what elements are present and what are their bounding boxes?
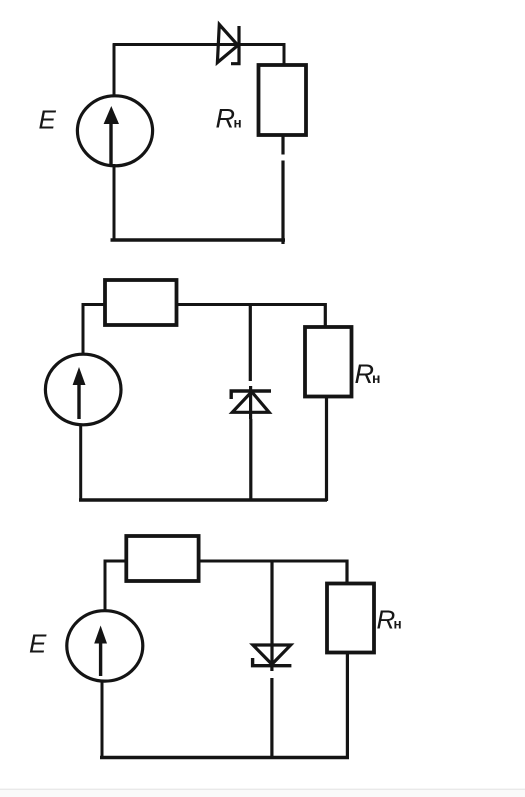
zener center line	[249, 386, 252, 419]
wire: right vertical stub under resistor	[281, 135, 284, 155]
wire: right down-turn into Rн	[324, 303, 327, 328]
wire: below Rн to bottom	[346, 653, 349, 759]
zener diode VD (triangle pointing down)	[253, 645, 291, 664]
wire: middle branch from top wire down to zener	[270, 561, 273, 666]
svg-text:R: R	[377, 605, 396, 635]
wire: top-left corner (source to series resistor)	[83, 305, 106, 356]
svg-text:E: E	[39, 105, 57, 135]
wire: below zener to bottom	[270, 678, 273, 758]
wire: bottom horizontal	[79, 498, 327, 501]
wire: left vertical below source	[113, 164, 116, 240]
voltage source E (circle)	[77, 96, 152, 166]
wire: left vertical from top corner to source top	[113, 43, 116, 97]
series resistor (box)	[105, 280, 177, 325]
wire: diode cathode to resistor top	[240, 45, 284, 67]
zener diode VD (cathode bar with hook)	[231, 391, 271, 399]
wire: bottom horizontal	[100, 756, 349, 759]
svg-text:E: E	[29, 629, 47, 659]
svg-text:н: н	[372, 370, 380, 386]
series resistor (box)	[126, 536, 198, 581]
voltage source E (circle)	[67, 611, 143, 681]
wire: bottom horizontal	[111, 238, 286, 241]
wire: below Rн to bottom	[325, 397, 328, 502]
wire: right down-turn into Rн	[345, 560, 348, 585]
wire: right vertical lower segment	[281, 161, 284, 245]
svg-text:R: R	[216, 104, 236, 134]
wire: top-left horizontal (E to diode anode)	[113, 43, 242, 46]
wire: left vertical below source	[101, 681, 104, 758]
zener anode stub	[270, 666, 273, 671]
faint page divider near bottom	[0, 789, 525, 790]
arrow of source	[77, 380, 80, 419]
diode VD cathode bar with hook	[231, 26, 239, 64]
arrow of source E	[109, 119, 112, 165]
zener diode VD (cathode bar with hook)	[253, 658, 292, 666]
wire: below zener to bottom	[249, 419, 252, 501]
load resistor Rн (box)	[259, 65, 307, 135]
wire: top horizontal (resistor to right branch)	[177, 303, 326, 306]
load resistor Rн (box)	[305, 327, 352, 397]
arrow of source E	[99, 638, 102, 676]
wire: top horizontal (resistor to right branch)	[199, 560, 348, 563]
zener diode VD (triangle pointing up)	[232, 392, 269, 413]
svg-text:н: н	[234, 116, 242, 131]
current source (circle)	[45, 354, 121, 425]
svg-text:н: н	[394, 617, 402, 632]
diode VD (triangle)	[217, 25, 238, 63]
wire: top-left corner (source to series resistor)	[105, 561, 128, 612]
wire: left vertical below source	[79, 425, 82, 502]
wire: middle branch from top wire down to zener	[249, 305, 252, 382]
load resistor Rн (box)	[327, 584, 374, 653]
